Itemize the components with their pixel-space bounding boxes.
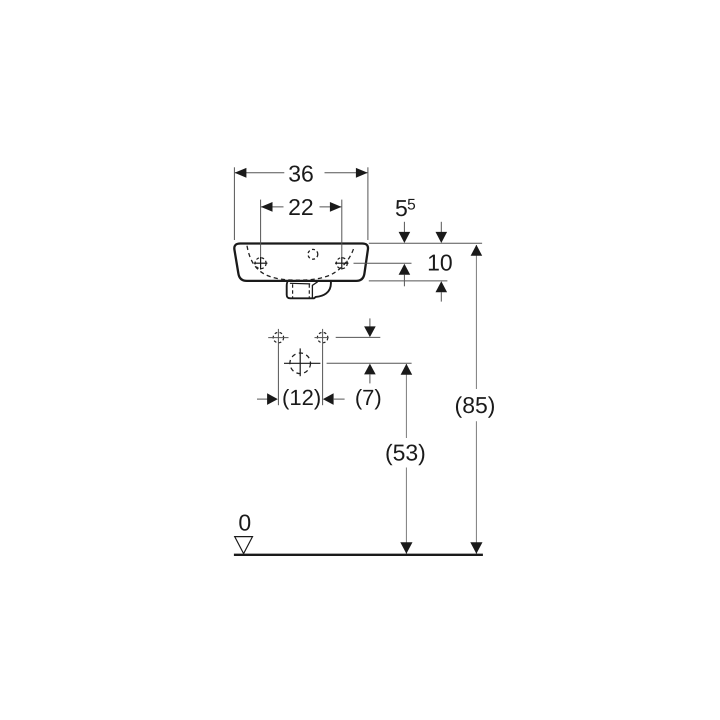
fixing hole left crosshair [268,337,288,339]
washbasin outline (front view) [234,244,368,281]
svg-text:22: 22 [288,194,314,220]
dimension (7): lower arrow (up) [364,364,376,375]
svg-text:(85): (85) [455,392,496,418]
dimension (85): arrow down [470,542,482,554]
svg-text:(53): (53) [385,439,426,465]
dimension (53): arrow down [400,542,412,554]
dimension (85): vertical line upper part [475,245,477,389]
dimension 5/5: upper arrow (down) [403,222,405,235]
dimension 36: extension line left [233,167,235,240]
floor line [234,554,483,556]
rim level line (extends right) [369,242,482,244]
tap hole left (dashed circle) [255,258,266,269]
dimension 22: extension line right [341,200,343,257]
drain hole (dashed circle) [290,353,311,374]
trap hidden pipe edges (dashed) [292,284,294,298]
dimension (12): arrow right (pointing left) [323,393,334,405]
svg-text:(7): (7) [355,385,382,410]
drain trap outline below basin [287,282,331,299]
dimension 36: line [235,172,284,174]
dimension (53): vertical line lower part [405,468,407,555]
drain hole crosshair horizontal [284,362,320,364]
overflow hole (dashed circle) [308,249,318,259]
dimension 22: arrowhead right [330,202,342,212]
basin bottom level line (extends right) [369,280,448,282]
svg-text:10: 10 [427,249,453,275]
dimension 22: arrowhead left [261,202,273,212]
svg-text:5: 5 [395,195,408,221]
fixing hole right extension line (vertical) [322,329,324,405]
dimension 22: line [261,206,284,208]
svg-text:(12): (12) [282,385,321,410]
basin bowl hidden edge (dashed) [247,246,354,280]
dimension 10: upper arrow (down) [440,222,442,235]
dimension 5/5: lower arrow (up) [399,264,411,275]
fixing hole right crosshair [315,337,329,339]
drain hole crosshair vertical [299,348,301,376]
tap hole left crosshair [254,262,268,264]
trap inner top edge [290,282,310,285]
drain axis line (extends right) [327,362,412,364]
dimension (53): arrow up [401,364,413,375]
dimension 10: lower arrow (up) [436,281,448,292]
fixing hole right (dashed circle) [317,332,327,342]
svg-text:36: 36 [288,161,314,187]
dimension 36: arrowhead right [356,168,368,178]
dimension (85): arrow up [471,245,483,256]
fixing hole left extension line (vertical) [277,329,279,405]
dimension 36: arrowhead left [235,168,247,178]
tap hole right (dashed circle) [336,258,347,269]
tap hole axis line (extends right) [354,262,412,264]
fixing hole axis line (extends right) [336,336,381,338]
trap inner right edge [312,282,317,298]
dimension (12): arrow left (pointing right) [257,398,268,400]
dimension (53): vertical line upper part [405,364,407,438]
fixing hole left (dashed circle) [273,332,283,342]
dimension (7): upper arrow (down) [369,318,371,327]
dimension 36: extension line right [367,167,369,240]
tap hole right crosshair [335,262,349,264]
svg-text:5: 5 [407,196,416,213]
svg-text:0: 0 [238,510,251,536]
dimension (85): vertical line lower part [475,421,477,554]
dimension 22: extension line left [260,200,262,257]
datum triangle [235,537,253,554]
